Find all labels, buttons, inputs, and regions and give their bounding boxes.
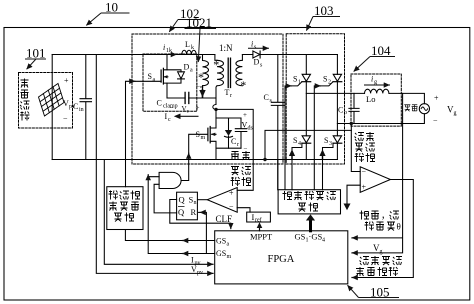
- svg-text:S: S: [148, 72, 152, 81]
- transformer core: [228, 58, 230, 87]
- svg-text:S: S: [324, 136, 328, 145]
- grid return wire: [337, 114, 424, 124]
- svg-text:k: k: [191, 45, 194, 51]
- svg-text:S: S: [323, 75, 327, 84]
- svg-text:D: D: [254, 58, 260, 67]
- AC source (grid): [419, 104, 429, 114]
- wire: primary bottom to Sm drain: [216, 86, 217, 105]
- svg-text:−: −: [170, 104, 174, 112]
- svg-text:4: 4: [298, 141, 301, 147]
- svg-text:1:N: 1:N: [219, 43, 233, 53]
- wire: bottom DC bus: [52, 159, 337, 161]
- thyristor S4: [302, 136, 310, 143]
- svg-text:*: *: [198, 70, 204, 84]
- svg-text:3: 3: [329, 141, 332, 147]
- wire: Vpv sense riser: [96, 55, 209, 274]
- comparator (current limit): [207, 188, 237, 213]
- secondary return sense wire: [265, 130, 351, 159]
- svg-text:g: g: [374, 80, 377, 86]
- transformer Tr primary winding: [217, 57, 223, 60]
- wire: clamp bottom rail: [167, 97, 216, 99]
- svg-text:in: in: [79, 107, 84, 113]
- svg-text:g: g: [380, 249, 383, 255]
- svg-text:c: c: [168, 117, 171, 123]
- svg-text:C: C: [338, 106, 343, 115]
- SR flip-flop box: [177, 192, 198, 220]
- text: to-zero signal: [356, 267, 364, 276]
- thyristor S2: [333, 74, 341, 81]
- op-amp output to FPGA (zero signal): [353, 180, 414, 278]
- svg-text:C: C: [73, 102, 78, 111]
- svg-text:L: L: [185, 40, 190, 49]
- bridge output wire to filter: [306, 92, 364, 94]
- svg-text:+: +: [362, 183, 367, 192]
- svg-text:r: r: [230, 93, 232, 99]
- svg-text:C: C: [157, 99, 162, 108]
- op-amp comparator (zero crossing): [360, 167, 390, 193]
- svg-text:−: −: [433, 117, 438, 126]
- svg-text:ds: ds: [248, 126, 254, 132]
- svg-text:o: o: [344, 110, 347, 116]
- svg-text:m: m: [201, 135, 206, 141]
- svg-text:T: T: [225, 88, 230, 97]
- Q to CLF into FPGA: [170, 200, 231, 229]
- svg-text:−: −: [63, 114, 68, 123]
- svg-text:a: a: [227, 242, 230, 248]
- svg-text:S: S: [293, 136, 297, 145]
- text: active clamp drive circuit (3 lines): [109, 191, 119, 200]
- svg-text:*: *: [240, 78, 246, 92]
- thyristor S1: [302, 74, 310, 81]
- node dot on bus: [263, 158, 266, 161]
- snubber network top rail: [216, 117, 241, 119]
- wire: bus corner into primary: [215, 55, 217, 61]
- svg-text:GS: GS: [216, 249, 226, 258]
- svg-text:MPPT: MPPT: [250, 232, 273, 242]
- diode Ds (secondary rectifier): [242, 54, 337, 56]
- bridge right leg wire: [336, 55, 338, 160]
- output filter dashed box 104: [351, 74, 401, 126]
- diode Dm (body diode of Sm): [228, 118, 230, 148]
- inductor Lk: [182, 50, 196, 54]
- svg-text:GS: GS: [216, 237, 226, 246]
- svg-text:S: S: [196, 130, 200, 139]
- snubber network bottom rail: [216, 147, 241, 149]
- text: solar panel (vertical): [21, 79, 29, 88]
- svg-text:+: +: [196, 104, 200, 112]
- svg-text:+: +: [229, 189, 234, 198]
- MOSFET Sa: [163, 55, 167, 99]
- bridge left leg wire: [305, 55, 307, 160]
- svg-text:GS: GS: [295, 232, 306, 242]
- svg-text:i: i: [371, 75, 373, 84]
- svg-text:，: ，: [381, 211, 390, 221]
- primary current sense wire to comparator: [216, 109, 253, 190]
- svg-text:−: −: [362, 168, 367, 177]
- capacitor Cin: [80, 55, 92, 160]
- flyback converter dashed box 102: [132, 34, 283, 164]
- svg-text:θ: θ: [397, 222, 401, 232]
- inductor Lo: [365, 89, 389, 93]
- svg-text:Q: Q: [179, 195, 185, 205]
- text: grid: [404, 105, 410, 111]
- wire: solar panel vertical feed: [51, 55, 53, 160]
- text: inverter bridge drive circuit: [283, 191, 293, 200]
- svg-text:2: 2: [328, 80, 331, 86]
- svg-text:−: −: [229, 202, 234, 211]
- grid voltage sense wire: [353, 93, 403, 253]
- wire: bus reference into drive box: [277, 160, 279, 190]
- wire: top DC bus: [52, 54, 215, 56]
- svg-text:−: −: [244, 145, 248, 153]
- capacitor Cs: [271, 55, 284, 190]
- svg-text:Q: Q: [178, 207, 184, 217]
- svg-text:n: n: [194, 200, 197, 206]
- AND gate: [159, 172, 181, 188]
- capacitor Cr: [235, 118, 247, 148]
- svg-text:i: i: [251, 40, 253, 49]
- svg-text:4: 4: [322, 238, 325, 244]
- svg-text:i: i: [163, 43, 165, 52]
- Sa gate drive wire from clamp driver: [126, 81, 162, 186]
- svg-text:CLF: CLF: [216, 214, 233, 224]
- Sm gate wire from AND gate: [182, 134, 208, 180]
- Qbar to AND input: [154, 184, 177, 213]
- svg-text:m: m: [227, 254, 232, 260]
- svg-text:*: *: [213, 57, 219, 71]
- svg-text:104: 104: [371, 43, 391, 58]
- wire hop on drain node: [213, 105, 216, 110]
- text: secondary current: [360, 257, 370, 266]
- svg-text:1021: 1021: [186, 15, 212, 30]
- secondary current sampling drop wire: [351, 124, 360, 172]
- svg-text:pv: pv: [197, 270, 203, 276]
- MPPT arrow FPGA to Iref: [259, 228, 261, 231]
- thyristor S3: [333, 136, 341, 143]
- is current annotation arrow: [249, 47, 269, 49]
- Vpv arrowhead into FPGA: [209, 272, 214, 274]
- iLm current arrow (thick down): [202, 86, 204, 90]
- svg-text:FPGA: FPGA: [268, 254, 295, 265]
- solar panel dashed box 101: [19, 73, 73, 129]
- svg-text:1k: 1k: [166, 48, 172, 54]
- svg-text:R: R: [191, 207, 197, 217]
- FPGA box 105: [215, 231, 348, 284]
- GSa wire FPGA to clamp driver: [125, 230, 214, 241]
- svg-text:m: m: [200, 84, 204, 89]
- op-amp ground on + input: [347, 185, 360, 203]
- active clamp dashed box 1021: [143, 54, 197, 111]
- svg-text:a: a: [153, 77, 156, 83]
- inverter drive circuit box: [278, 190, 340, 214]
- ig current annotation arrow: [365, 84, 390, 86]
- solar panel symbol: [39, 84, 65, 117]
- R input tap from GSm: [199, 212, 207, 253]
- wire comparator out to S input: [198, 199, 208, 201]
- inverter bridge dashed box 103: [286, 34, 344, 164]
- text: phase lock, get phase angle: [360, 211, 370, 220]
- capacitor Co: [349, 93, 359, 123]
- svg-text:1: 1: [298, 80, 301, 86]
- GSm wire FPGA to AND gate: [148, 177, 215, 254]
- svg-text:S: S: [293, 75, 297, 84]
- svg-text:+: +: [64, 76, 69, 85]
- flyback: i1k current arrow on bus: [169, 54, 177, 56]
- svg-text:10: 10: [105, 0, 118, 15]
- svg-text:r: r: [237, 142, 239, 148]
- wire: Ipv sense riser: [104, 160, 209, 265]
- svg-text:C: C: [231, 137, 236, 146]
- svg-text:g: g: [454, 111, 457, 117]
- MOSFET Sm (main switch): [210, 128, 216, 160]
- Iref box: [247, 212, 271, 222]
- svg-text:+: +: [243, 111, 247, 119]
- svg-text:C: C: [264, 93, 269, 102]
- wire comparator minus to Iref: [237, 208, 250, 212]
- svg-text:Lo: Lo: [366, 94, 375, 104]
- transformer Tr secondary winding: [236, 55, 243, 86]
- magnetizing inductance Lm: [203, 55, 209, 90]
- svg-text:+: +: [434, 94, 439, 103]
- diode Da (parallel with Sa): [167, 70, 181, 83]
- svg-text:101: 101: [26, 46, 46, 61]
- svg-text:103: 103: [314, 3, 334, 18]
- svg-text:ref: ref: [255, 217, 262, 224]
- Ipv arrowhead into FPGA: [209, 263, 214, 265]
- svg-text:D: D: [184, 63, 190, 72]
- text: secondary current sampling: [355, 133, 365, 142]
- active clamp drive circuit box: [107, 187, 143, 230]
- svg-text:·GS: ·GS: [309, 232, 323, 242]
- node dot: Sm drain / clamp node: [214, 108, 217, 111]
- svg-text:a: a: [190, 68, 193, 74]
- capacitor Cclamp: [185, 92, 189, 103]
- text: primary current sampling: [231, 152, 239, 160]
- thick arrow GS1-GS4 from FPGA to drive box: [309, 220, 312, 231]
